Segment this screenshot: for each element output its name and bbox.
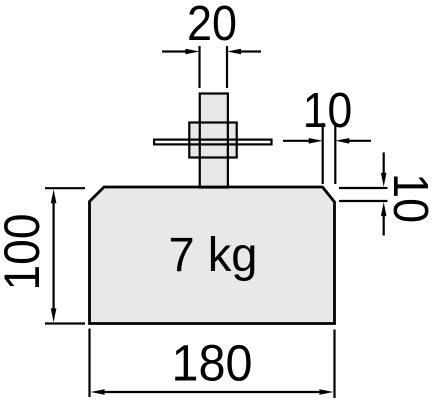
svg-text:10: 10 [383, 173, 435, 223]
svg-text:20: 20 [187, 0, 237, 51]
svg-text:100: 100 [0, 214, 50, 291]
svg-text:7 kg: 7 kg [169, 229, 258, 282]
svg-text:10: 10 [303, 84, 353, 138]
svg-text:180: 180 [172, 335, 253, 392]
